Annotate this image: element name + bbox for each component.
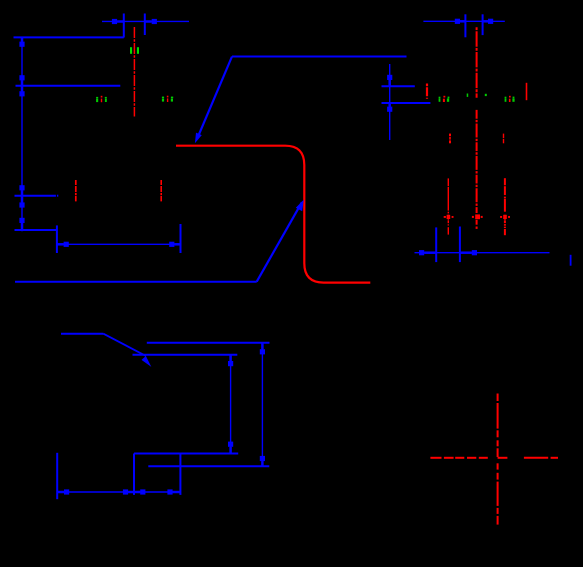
centerline: left pad bottom row top-right <box>447 178 449 234</box>
extension tick left of bottom dim top-right <box>435 227 437 262</box>
leader arrowhead pointing at lead vertical <box>296 200 304 212</box>
centerline: top-right figure vertical centerline <box>476 27 478 229</box>
arrow pointing left at left tick bl <box>57 489 69 494</box>
lone tick mark right of bottom dim <box>570 255 572 266</box>
extension line bottom of outer height dim <box>148 465 269 467</box>
arrow right end bottom dim <box>169 242 180 247</box>
leader line upper with horizontal run <box>197 57 407 140</box>
extension tick left of top-right top dim <box>464 14 466 37</box>
leader line lower horizontal run <box>15 202 302 282</box>
cross bar on right pad centerline <box>500 215 510 219</box>
value label green mark right of centerline <box>137 47 139 54</box>
arrow down at outer dim bottom <box>260 456 265 466</box>
extension line A top-left <box>14 36 124 38</box>
dimension line: inner height dim bottom-left <box>230 355 232 454</box>
arrow up at line B <box>19 86 24 97</box>
crosshair horizontal centerline bottom-right <box>430 457 558 459</box>
extension tick left of top dim <box>123 14 125 38</box>
arrow pointing right at right tick bl <box>167 489 180 494</box>
arrow left end bottom dim <box>57 242 69 247</box>
lead top surface bottom-left figure <box>61 333 103 335</box>
centerline: right lead mark top-right <box>526 83 528 100</box>
crosshair vertical centerline bottom-right <box>497 394 499 525</box>
arrow pointing right at middle tick bl <box>123 489 134 494</box>
lead shoulder diagonal <box>103 334 146 356</box>
value label cluster right pad <box>162 96 173 102</box>
lead outline red S-curve <box>176 146 370 283</box>
extension line top of inner height dim <box>133 354 238 356</box>
value label cluster left pad <box>96 96 107 102</box>
centerline: top-left figure vertical centerline <box>133 27 135 117</box>
arrow right of top dim <box>145 19 157 24</box>
extension line B top-left <box>16 85 121 87</box>
extension tick right of top-right top dim <box>482 14 484 35</box>
arrow up at line A <box>19 37 24 46</box>
extension line top of outer height dim <box>147 342 270 344</box>
extension tick right bottom-left dim <box>179 454 181 495</box>
hidden dash segment right inner <box>503 134 505 144</box>
arrow pointing right at left tick <box>419 250 436 255</box>
centerline: right pad top-left figure <box>160 180 162 202</box>
extension tick left of bottom dim top-left <box>56 225 58 253</box>
dimension line: top-right bottom dim <box>415 252 550 254</box>
dimension line: top-right vertical dim <box>389 64 391 140</box>
arrow down at line C <box>19 185 24 195</box>
extension line 2 top-right <box>382 85 415 87</box>
centerline: left lead mark top-right <box>426 84 428 100</box>
arrow left of top dim <box>112 19 124 24</box>
extension tick right of bottom dim top-left <box>180 224 182 253</box>
extension tick right of bottom dim top-right <box>459 227 461 263</box>
centerline: right pad bottom row top-right <box>504 178 506 235</box>
extension line bottom of inner height dim <box>134 453 238 455</box>
value label cluster top-right right <box>505 96 515 102</box>
arrowhead at diagonal end <box>142 356 152 367</box>
dimension line: top-left figure pad-width dim line <box>102 20 189 22</box>
arrow down at line D <box>19 218 24 230</box>
arrow down at ext2 <box>387 75 392 86</box>
leader arrowhead pointing at lead tip <box>195 133 202 144</box>
cross bar on left pad centerline <box>444 215 454 219</box>
extension line D top-left <box>15 229 57 231</box>
value label green mark left of centerline <box>130 47 132 54</box>
arrow left of top-right top dim <box>455 19 466 24</box>
arrow pointing left at middle tick bl <box>134 489 145 494</box>
dimension line: outer height dim bottom-left <box>261 343 263 467</box>
dimension line: bottom-left chained dims <box>57 491 180 493</box>
hidden dash segment left inner <box>449 134 451 144</box>
dimension line: top-left bottom dim <box>57 243 181 245</box>
extension tick right of top dim <box>144 14 146 36</box>
arrow up at outer dim top <box>260 343 265 355</box>
value label green dot right of centerline <box>485 94 487 96</box>
arrow right of top-right top dim <box>483 19 494 24</box>
extension tick middle bottom-left dim <box>133 454 135 495</box>
arrow up at ext3 <box>387 103 392 112</box>
arrow down at inner dim bottom <box>228 442 233 454</box>
arrow down at line B <box>19 75 24 86</box>
value label cluster top-right left <box>439 96 450 102</box>
dimension line: top-left vertical chained dims <box>21 37 23 231</box>
arrow up at inner dim top <box>228 355 233 367</box>
extension tick left bottom-left dim <box>56 453 58 499</box>
dimension line: top-right figure top dim <box>423 20 504 22</box>
extension line 3 top-right <box>382 102 431 104</box>
cross bar on centerline pad center <box>472 214 483 219</box>
value label green dot left of centerline <box>467 94 469 97</box>
arrow up at line C <box>19 195 24 207</box>
centerline: left pad top-left figure <box>75 180 77 202</box>
extension line C top-left <box>15 195 59 197</box>
arrow pointing left at right tick <box>460 250 477 255</box>
